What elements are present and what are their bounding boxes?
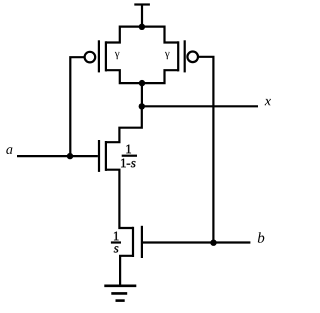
node drain junction dot: [139, 80, 145, 86]
transistor M1 gate bar: [98, 40, 100, 72]
node b junction dot: [210, 240, 216, 246]
transistor M1 left PMOS channel: [105, 41, 107, 71]
value label 1/s numerator: [114, 232, 119, 241]
wire M1 gate bubble stub and left column down to node a: [70, 57, 84, 156]
transistor M3 gate bar: [141, 226, 143, 258]
value label 1/(1-s) numerator: [126, 145, 131, 154]
wire jog node x to M2 drain: [106, 106, 142, 142]
transistor M1 gate bubble: [85, 52, 96, 63]
wire input a: [17, 155, 98, 157]
value label 1/s denominator: [114, 246, 119, 252]
node label b: [258, 232, 265, 243]
transistor M3 channel: [132, 227, 134, 257]
wire bottom rail with drain leads: [106, 70, 178, 83]
transistor M2 channel: [105, 141, 107, 171]
transistor M4 right PMOS channel: [177, 41, 179, 71]
value label 1/s bar: [111, 241, 121, 243]
value label gamma M4: [165, 52, 170, 59]
node label x: [265, 99, 271, 105]
wire drain dot to node x: [141, 83, 143, 106]
wire M3 source to ground: [120, 256, 133, 286]
node a junction dot: [67, 153, 73, 159]
transistor M4 gate bubble: [187, 52, 198, 63]
ground symbol: [104, 286, 136, 301]
value label gamma M1: [115, 52, 120, 59]
transistor M2 gate bar: [98, 140, 100, 172]
node label a: [6, 147, 12, 154]
wire node x to label: [142, 105, 258, 107]
wire top rail with source drops: [106, 27, 178, 43]
wire M3 gate to node b: [143, 241, 251, 243]
value label 1/(1-s) denominator: [121, 159, 135, 168]
node x junction dot: [139, 103, 145, 109]
power supply T symbol: [134, 5, 150, 27]
transistor M4 gate bar: [184, 40, 186, 72]
value label 1/(1-s) bar: [122, 155, 137, 157]
wire M4 gate bubble to right column down to node b: [198, 57, 213, 243]
node VDD junction dot: [139, 24, 145, 30]
wire M2 source to M3 drain: [106, 170, 133, 228]
